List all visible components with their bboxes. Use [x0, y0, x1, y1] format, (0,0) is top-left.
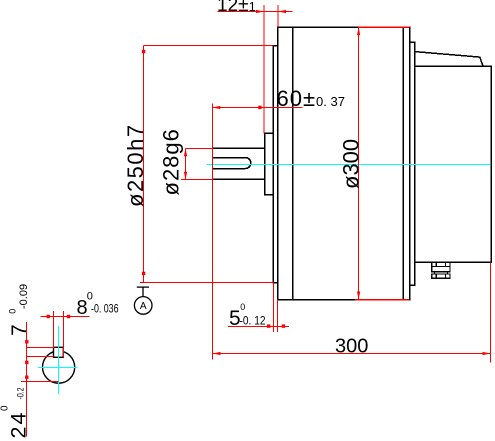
key rectangle	[54, 347, 64, 357]
keyway slot	[212, 158, 251, 169]
dia 300 dim	[358, 27, 360, 299]
svg-text:0: 0	[0, 405, 11, 411]
square dots	[258, 106, 261, 109]
dim 60	[212, 107, 302, 109]
dim 5	[228, 326, 289, 328]
connector terminal	[432, 262, 450, 278]
svg-text:0: 0	[240, 302, 245, 312]
motor body outline	[278, 27, 410, 299]
shaft boss	[265, 133, 274, 194]
dim 7 / 24 detail	[26, 322, 28, 437]
28g6 arrows	[184, 148, 187, 156]
svg-text:300: 300	[335, 336, 368, 358]
300 dia arrows	[357, 27, 360, 35]
rear lid	[415, 52, 484, 67]
rear step piece	[410, 42, 415, 285]
dia 250h7 dim	[144, 45, 274, 47]
red arrows	[25, 10, 490, 379]
svg-text:-0.2: -0.2	[16, 388, 27, 400]
svg-text:ø28g6: ø28g6	[159, 128, 184, 195]
svg-text:ø250h7: ø250h7	[123, 123, 148, 207]
dim 8 detail	[41, 316, 90, 318]
svg-text:A: A	[140, 301, 147, 312]
svg-text:ø300: ø300	[339, 139, 364, 189]
dim 12+-1	[218, 11, 293, 13]
dimension texts	[0, 0, 368, 439]
svg-text:24: 24	[7, 411, 31, 439]
dim 300 bottom	[213, 353, 491, 355]
rear housing	[415, 66, 492, 262]
flange junction line	[292, 27, 294, 299]
300 dim arrows	[213, 352, 221, 355]
spigot plate	[273, 46, 278, 283]
svg-text:-0. 036: -0. 036	[91, 301, 119, 315]
dia 28g6 dim	[186, 148, 213, 150]
svg-text:7: 7	[8, 324, 31, 336]
shaft	[212, 147, 264, 149]
cyan centerlines	[38, 165, 490, 394]
datum A symbol	[134, 287, 152, 314]
back plate line	[402, 27, 404, 299]
svg-text:-0.09: -0.09	[18, 284, 30, 309]
svg-text:-0. 12: -0. 12	[240, 313, 266, 327]
60 dim arrow	[212, 106, 220, 109]
detail view: shaft section circle	[43, 347, 75, 383]
12 dim arrows	[256, 10, 264, 13]
svg-text:0: 0	[8, 309, 18, 314]
svg-text:12±1: 12±1	[217, 0, 256, 16]
